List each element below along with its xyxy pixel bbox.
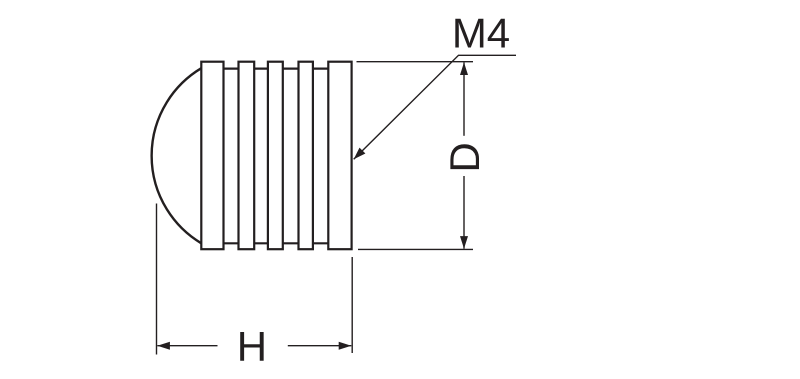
dimension line H left segment [157, 345, 217, 347]
arrowhead D up [460, 62, 468, 75]
thread rib 3 [268, 62, 283, 250]
dimension line D upper segment [463, 62, 465, 135]
dimension line H right segment [288, 345, 352, 347]
extension line: H left [156, 204, 158, 355]
svg-text:D: D [441, 142, 488, 172]
thread rib 4 [299, 62, 313, 250]
extension line: D bottom [358, 248, 473, 250]
arrowhead H left [157, 342, 170, 350]
svg-text:M4: M4 [452, 10, 510, 57]
extension line: D top [357, 61, 474, 63]
thread rib 5 [328, 62, 351, 250]
wire: thread root line top [201, 67, 351, 69]
dimension line D lower segment [463, 176, 465, 249]
arrowhead D down [460, 236, 468, 249]
wire: thread root line bottom [201, 242, 351, 244]
leader line M4 [354, 55, 516, 159]
svg-text:H: H [237, 323, 267, 370]
thread rib 1 [201, 62, 223, 250]
thread rib 2 [239, 62, 255, 250]
arrowhead H right [339, 342, 352, 350]
arrowhead M4 leader [354, 148, 366, 160]
extension line: H right [351, 257, 353, 353]
dome (rounded tip arc) [152, 68, 202, 243]
